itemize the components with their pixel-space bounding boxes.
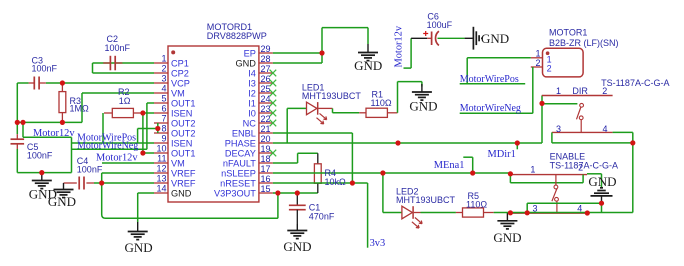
label DIR xyxy=(572,86,588,96)
svg-text:16: 16 xyxy=(261,174,271,184)
label R5 value 110ohm xyxy=(466,200,487,210)
net label Motor12v pin11 xyxy=(96,153,138,164)
svg-text:19: 19 xyxy=(261,144,271,154)
net label MotorWirePos 2 xyxy=(460,74,526,85)
svg-text:MotorWireNeg: MotorWireNeg xyxy=(460,103,521,114)
svg-text:MOTOR1: MOTOR1 xyxy=(549,27,587,37)
wire Motor12v bus xyxy=(17,121,82,123)
label GND R5 xyxy=(493,230,521,245)
label C2 value 100nF xyxy=(105,43,131,53)
resistor R2 xyxy=(104,108,154,117)
label C2 xyxy=(107,34,119,44)
wire C5 bottom xyxy=(16,149,18,173)
ground GND rotated xyxy=(473,27,482,50)
wire MotorWireNeg row xyxy=(72,148,147,150)
svg-text:10kΩ: 10kΩ xyxy=(325,177,347,187)
svg-text:ISEN: ISEN xyxy=(171,138,192,148)
svg-text:100nF: 100nF xyxy=(105,43,131,53)
svg-text:GND: GND xyxy=(493,230,521,245)
LED LED1 xyxy=(307,102,327,124)
ground GND1 xyxy=(32,173,52,189)
wire R1 to GND xyxy=(387,82,422,113)
svg-text:100nF: 100nF xyxy=(32,64,58,74)
svg-text:B2B-ZR (LF)(SN): B2B-ZR (LF)(SN) xyxy=(549,38,619,48)
label ENABLE xyxy=(550,151,586,161)
svg-text:GND: GND xyxy=(48,194,76,209)
node 3v3 junction xyxy=(350,180,355,185)
svg-text:21: 21 xyxy=(261,124,271,134)
svg-text:13: 13 xyxy=(156,173,166,183)
label MOTOR1 value B2B-ZR (LF)(SN) xyxy=(549,38,619,48)
svg-text:NC: NC xyxy=(243,118,257,128)
label GND rotated xyxy=(481,31,509,46)
svg-text:OUT2: OUT2 xyxy=(171,128,196,138)
wire GND pin28 xyxy=(273,62,322,64)
node DIR feed junction xyxy=(539,101,544,106)
svg-text:I0: I0 xyxy=(248,108,256,118)
label LED2 xyxy=(396,187,419,197)
svg-text:17: 17 xyxy=(261,164,271,174)
wire MEna1 label hook xyxy=(463,157,472,173)
svg-text:25: 25 xyxy=(261,84,271,94)
svg-text:CP2: CP2 xyxy=(171,68,189,78)
svg-text:470nF: 470nF xyxy=(309,212,335,222)
svg-text:1Ω: 1Ω xyxy=(119,96,131,106)
net label MDir1 xyxy=(488,149,516,160)
svg-text:VREF: VREF xyxy=(171,178,196,188)
ground GND C1 xyxy=(287,224,307,239)
svg-text:VM: VM xyxy=(171,158,185,168)
wire DIR pin4 drop xyxy=(613,132,633,143)
node bus R3 bottom junction xyxy=(60,120,65,125)
wire GND pin14 xyxy=(138,193,154,222)
svg-text:GND: GND xyxy=(588,174,616,189)
wire DIR to ENABLE column xyxy=(632,143,634,213)
switch SW1 DIR bottom rail xyxy=(552,131,613,133)
svg-text:6: 6 xyxy=(161,103,166,113)
svg-text:14: 14 xyxy=(156,183,166,193)
wire R2 left vertical xyxy=(102,113,104,143)
wire ENABLE pin4 link xyxy=(601,203,603,212)
label ENABLE pin number 1 xyxy=(530,164,535,174)
ground GND EP xyxy=(358,44,378,61)
connector MOTOR1 pin stubs xyxy=(531,58,543,67)
node OUT1 pin10 junction xyxy=(140,150,145,155)
label DIR pin number 2 xyxy=(602,86,607,96)
wire VREF pin12 xyxy=(102,173,154,183)
node PHASE MDir1 tap junction xyxy=(515,140,520,145)
ground GND R1 xyxy=(412,84,432,100)
wire OUT1 pin5 xyxy=(147,103,154,149)
switch SW2 ENABLE bottom rail xyxy=(494,212,633,215)
svg-text:TS-1187A-C-G-A: TS-1187A-C-G-A xyxy=(601,78,669,88)
svg-text:GND: GND xyxy=(409,99,437,114)
svg-text:I4: I4 xyxy=(248,68,256,78)
wire label column vertical xyxy=(71,137,73,172)
wire C6 to GND xyxy=(465,37,473,39)
svg-text:7: 7 xyxy=(161,113,166,123)
label C5 xyxy=(27,142,39,152)
svg-text:26: 26 xyxy=(261,74,271,84)
label MOTOR1 xyxy=(549,27,587,37)
wire R5 to ENABLE rail xyxy=(484,212,494,214)
svg-text:1: 1 xyxy=(161,53,166,63)
node bus left junction xyxy=(15,120,20,125)
switch SW1 contact xyxy=(577,103,584,132)
svg-text:100nF: 100nF xyxy=(77,164,103,174)
node ENABLE gnd junction xyxy=(599,201,604,206)
wire MotorWirePos row pin9 xyxy=(72,142,155,144)
svg-text:2: 2 xyxy=(535,58,540,68)
wire MotorWirePos to MOTOR1 pin1 xyxy=(467,58,531,84)
node bus label tap junction xyxy=(20,120,25,125)
node ENABLE right junction xyxy=(585,210,590,215)
svg-text:nRESET: nRESET xyxy=(220,178,256,188)
switch SW1 DIR top rail xyxy=(542,95,613,97)
wire CP1 pin1 xyxy=(93,62,155,64)
svg-text:GND: GND xyxy=(481,31,509,46)
label R5 xyxy=(468,191,480,201)
svg-text:28: 28 xyxy=(261,54,271,64)
svg-text:I3: I3 xyxy=(248,78,256,88)
label R4 value 10kohm xyxy=(325,177,347,187)
wire PHASE pin20 xyxy=(273,142,542,144)
svg-text:nSLEEP: nSLEEP xyxy=(221,168,256,178)
label MOTOR1 pin1 inner xyxy=(547,54,552,64)
svg-text:3: 3 xyxy=(161,73,166,83)
label C1 value 470nF xyxy=(309,212,335,222)
svg-text:100uF: 100uF xyxy=(427,20,453,30)
svg-text:ISEN: ISEN xyxy=(171,108,192,118)
svg-text:GND: GND xyxy=(235,58,256,68)
svg-text:GND: GND xyxy=(125,240,153,255)
svg-text:27: 27 xyxy=(261,64,271,74)
node ground run junction xyxy=(39,170,44,175)
svg-text:3: 3 xyxy=(533,204,538,214)
resistor R3 xyxy=(59,83,66,122)
node MEna1 LED2 tap junction xyxy=(380,170,385,175)
label LED1 xyxy=(302,82,325,92)
wire OUT1 pin10 xyxy=(143,152,154,154)
label LED1 value MHT193UBCT xyxy=(302,91,362,101)
label C3 value 100nF xyxy=(32,64,58,74)
U1 pin numbers xyxy=(156,44,270,194)
wire MotorWireNeg to MOTOR1 pin2 xyxy=(460,67,533,113)
wire ENBL to nRESET vertical xyxy=(351,133,353,183)
net label MEna1 xyxy=(434,160,465,171)
svg-text:EP: EP xyxy=(244,48,256,58)
wire ENABLE pin2 to gnd xyxy=(587,174,602,188)
wire CP2 pin2 xyxy=(93,72,155,74)
wire Motor12v label leader xyxy=(23,122,72,137)
svg-text:1: 1 xyxy=(530,164,535,174)
wire VM pin4 xyxy=(82,93,154,122)
wire nFAULT pin18 to R4 xyxy=(273,153,318,163)
svg-text:CP1: CP1 xyxy=(171,58,189,68)
label GND EP xyxy=(354,58,382,73)
wire VM pin11 xyxy=(102,162,154,164)
wire V3P3OUT ground link xyxy=(102,183,278,218)
label C3 xyxy=(32,56,44,66)
svg-text:23: 23 xyxy=(261,104,271,114)
svg-text:9: 9 xyxy=(161,133,166,143)
wire LED1 cathode to R1 xyxy=(318,108,366,112)
ground GND3 xyxy=(128,222,148,240)
wire left vertical C3 to C5 xyxy=(16,83,18,139)
svg-text:MEna1: MEna1 xyxy=(434,160,465,171)
label R1 xyxy=(372,89,384,99)
wire VREF pin13 xyxy=(102,182,154,184)
label GND2 xyxy=(48,194,76,209)
svg-text:GND: GND xyxy=(171,188,192,198)
svg-text:15: 15 xyxy=(261,184,271,194)
svg-text:29: 29 xyxy=(261,44,271,54)
svg-text:MDir1: MDir1 xyxy=(488,149,516,160)
wire PHASE riser to DIR xyxy=(541,96,543,144)
net label 3v3 xyxy=(370,238,386,249)
svg-text:100nF: 100nF xyxy=(27,151,53,161)
node ENABLE pin3 junction xyxy=(508,210,513,215)
wire OUT2 bracket pins 7-8 xyxy=(138,123,158,143)
wire LED2 anode xyxy=(383,173,402,213)
wire 3v3 drop xyxy=(352,183,367,248)
U1 pin stubs xyxy=(154,53,273,193)
svg-text:2: 2 xyxy=(547,64,552,74)
svg-text:MotorWireNeg: MotorWireNeg xyxy=(77,141,138,152)
svg-text:11: 11 xyxy=(157,153,166,163)
wire EP pin29 xyxy=(273,52,322,54)
node ENABLE mid tap junction xyxy=(525,210,530,215)
node PHASE mid junction xyxy=(395,140,400,145)
svg-text:12: 12 xyxy=(156,163,166,173)
capacitor C1 xyxy=(289,193,306,224)
net label Motor12v xyxy=(33,128,75,139)
wire ENBL pin21 xyxy=(273,132,353,134)
node EP junction xyxy=(319,50,324,55)
wire ISEN to OUT1 vertical xyxy=(142,113,144,153)
label MOTOR1 pin1 outer xyxy=(535,49,540,59)
label DIR pin number 4 xyxy=(603,124,608,134)
svg-text:10: 10 xyxy=(156,143,166,153)
svg-text:ENBL: ENBL xyxy=(232,128,256,138)
ground GND R5 xyxy=(497,213,517,229)
svg-text:2: 2 xyxy=(578,163,583,173)
resistor R5 xyxy=(463,208,484,217)
node OUT2 bracket junction xyxy=(155,126,160,131)
label GND inverted xyxy=(588,174,616,189)
label C1 xyxy=(309,203,321,213)
svg-text:4: 4 xyxy=(161,83,166,93)
svg-text:2: 2 xyxy=(602,86,607,96)
label C6 value 100uF xyxy=(427,20,453,30)
capacitor C2 xyxy=(103,56,122,71)
wire EP loop xyxy=(322,28,368,63)
label GND R1 xyxy=(409,99,437,114)
label GND1 xyxy=(29,187,57,202)
net label MotorWireNeg xyxy=(77,141,138,152)
net label MotorWirePos xyxy=(77,133,136,144)
svg-text:110Ω: 110Ω xyxy=(371,98,392,108)
svg-text:MHT193UBCT: MHT193UBCT xyxy=(396,195,456,205)
svg-text:18: 18 xyxy=(261,154,271,164)
capacitor C4 xyxy=(64,177,102,190)
wire DIR contact feed xyxy=(542,103,577,105)
node V3P3OUT gnd tap junction xyxy=(275,190,280,195)
svg-text:20: 20 xyxy=(261,134,271,144)
label ENABLE TS-1187A-C-G-A xyxy=(550,161,618,171)
node ISEN R2 junction xyxy=(140,110,145,115)
svg-text:24: 24 xyxy=(261,94,271,104)
label C5 value 100nF xyxy=(27,151,53,161)
label R3 value 1Mohm xyxy=(70,103,90,113)
label DRV8828PWP xyxy=(207,31,267,41)
no-connect X marks pins 27-22 and 19 xyxy=(270,70,277,157)
wire CP1-CP2 left vertical xyxy=(92,63,94,73)
LED LED2 xyxy=(402,206,422,228)
svg-text:1: 1 xyxy=(556,86,561,96)
net label Motor12v vertical xyxy=(394,25,405,67)
label R2 xyxy=(118,87,130,97)
label R1 value 110ohm xyxy=(371,98,392,108)
svg-text:DECAY: DECAY xyxy=(225,148,256,158)
svg-text:8: 8 xyxy=(161,123,166,133)
U1 pin names xyxy=(171,48,256,198)
wire Motor12v to C6 xyxy=(404,38,428,68)
wire LED1 anode xyxy=(287,108,306,143)
svg-text:2: 2 xyxy=(161,63,166,73)
svg-text:OUT2: OUT2 xyxy=(171,118,196,128)
svg-text:DIR: DIR xyxy=(572,86,588,96)
resistor R1 xyxy=(366,108,387,117)
label ENABLE pin number 3 xyxy=(533,204,538,214)
svg-text:22: 22 xyxy=(261,114,271,124)
svg-text:OUT1: OUT1 xyxy=(171,148,196,158)
label C4 xyxy=(77,156,89,166)
svg-text:GND: GND xyxy=(283,239,311,254)
svg-text:DRV8828PWP: DRV8828PWP xyxy=(207,31,267,41)
node ENABLE pin1 junction xyxy=(508,171,513,176)
svg-text:TS-1187A-C-G-A: TS-1187A-C-G-A xyxy=(550,161,618,171)
svg-text:V3P3OUT: V3P3OUT xyxy=(214,188,256,198)
svg-text:Motor12v: Motor12v xyxy=(96,153,138,164)
label ENABLE pin number 2 xyxy=(578,163,583,173)
svg-text:1MΩ: 1MΩ xyxy=(70,103,90,113)
wire DIR pin3 drop xyxy=(552,132,633,143)
wire LED2 cathode to R5 xyxy=(414,212,463,214)
node VREF C4 junction xyxy=(99,180,104,185)
node V3P3OUT C1 tap junction xyxy=(295,190,300,195)
wire nRESET pin16 xyxy=(273,182,353,184)
label R4 xyxy=(325,168,337,178)
label GND C1 xyxy=(283,239,311,254)
svg-text:Motor12v: Motor12v xyxy=(394,25,405,67)
svg-text:OUT1: OUT1 xyxy=(171,98,196,108)
integrated circuit U1 MOTORD1 DRV8828PWP body xyxy=(168,46,259,202)
capacitor C3 xyxy=(29,77,46,90)
connector MOTOR1 body xyxy=(543,48,584,77)
wire nSLEEP pin17 MEna1 run xyxy=(273,172,511,174)
svg-text:PHASE: PHASE xyxy=(225,138,256,148)
wire VCP pin3 xyxy=(17,82,154,84)
label R3 xyxy=(70,96,82,106)
label C4 value 100nF xyxy=(77,164,103,174)
label MOTOR1 pin2 outer xyxy=(535,58,540,68)
capacitor C6 xyxy=(427,31,464,45)
node MEna1 label tap junction xyxy=(470,170,475,175)
label C6 xyxy=(427,11,439,21)
label DIR TS-1187A-C-G-A xyxy=(601,78,669,88)
svg-text:5: 5 xyxy=(161,93,166,103)
svg-text:VM: VM xyxy=(171,88,185,98)
label ENABLE pin number 4 xyxy=(577,204,582,214)
label GND3 xyxy=(125,240,153,255)
svg-text:Motor12v: Motor12v xyxy=(33,128,75,139)
svg-text:nFAULT: nFAULT xyxy=(223,158,256,168)
label MOTORD1 xyxy=(207,22,252,32)
label DIR pin number 1 xyxy=(556,86,561,96)
svg-text:VCP: VCP xyxy=(171,78,190,88)
ground GND inverted xyxy=(591,188,613,203)
svg-text:MHT193UBCT: MHT193UBCT xyxy=(302,91,362,101)
wire MDir1 label tick xyxy=(516,143,518,149)
ground GND2 xyxy=(54,183,74,198)
capacitor C5 xyxy=(11,139,25,149)
wire V3P3OUT pin15 xyxy=(273,192,318,194)
svg-text:110Ω: 110Ω xyxy=(466,200,487,210)
label MOTOR1 pin2 inner xyxy=(547,64,552,74)
svg-text:GND: GND xyxy=(354,58,382,73)
label DIR pin number 3 xyxy=(556,124,561,134)
net label MotorWireNeg 2 xyxy=(460,103,521,114)
wire ENABLE mid hook xyxy=(527,203,601,213)
svg-text:3: 3 xyxy=(556,124,561,134)
label LED2 value MHT193UBCT xyxy=(396,195,456,205)
svg-text:3v3: 3v3 xyxy=(370,238,386,249)
resistor R4 xyxy=(314,153,321,193)
svg-text:I1: I1 xyxy=(248,98,256,108)
node VCP R3 top junction xyxy=(60,80,65,85)
label C6 polarity plus xyxy=(423,31,428,36)
switch SW2 ENABLE top rail xyxy=(510,174,587,183)
label R2 value 1ohm xyxy=(119,96,131,106)
svg-text:VREF: VREF xyxy=(171,168,196,178)
wire C5 ground run xyxy=(17,172,71,174)
switch SW2 contact xyxy=(552,175,558,214)
svg-text:I2: I2 xyxy=(248,88,256,98)
svg-text:4: 4 xyxy=(603,124,608,134)
node DIR ENABLE column junction xyxy=(630,140,635,145)
svg-text:4: 4 xyxy=(577,204,582,214)
